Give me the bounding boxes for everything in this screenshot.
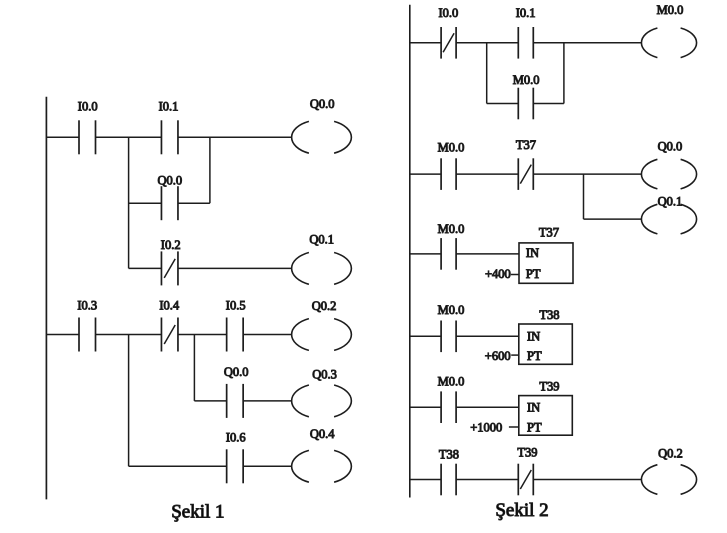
svg-text:T39: T39 [539, 379, 559, 393]
svg-text:Q0.0: Q0.0 [658, 140, 683, 154]
svg-text:I0.0: I0.0 [439, 6, 459, 20]
svg-text:M0.0: M0.0 [513, 73, 540, 87]
svg-text:M0.0: M0.0 [438, 222, 465, 236]
svg-text:I0.1: I0.1 [159, 100, 179, 114]
svg-text:I0.1: I0.1 [516, 6, 536, 20]
svg-text:M0.0: M0.0 [438, 141, 465, 155]
svg-text:Q0.2: Q0.2 [312, 299, 337, 313]
svg-text:T38: T38 [439, 448, 459, 462]
svg-text:+1000: +1000 [470, 420, 502, 434]
svg-text:Q0.0: Q0.0 [224, 365, 249, 379]
svg-text:+600: +600 [485, 349, 511, 363]
svg-text:M0.0: M0.0 [657, 3, 684, 17]
svg-text:T37: T37 [539, 226, 559, 240]
svg-text:Şekil 2: Şekil 2 [495, 500, 548, 521]
svg-text:PT: PT [526, 267, 541, 281]
svg-text:PT: PT [527, 420, 542, 434]
svg-text:PT: PT [527, 349, 542, 363]
svg-text:I0.5: I0.5 [226, 299, 246, 313]
svg-text:I0.3: I0.3 [77, 299, 97, 313]
svg-text:IN: IN [527, 401, 540, 415]
svg-text:Q0.1: Q0.1 [309, 233, 334, 247]
svg-text:Q0.1: Q0.1 [658, 195, 683, 209]
svg-text:I0.6: I0.6 [226, 431, 246, 445]
svg-text:+400: +400 [485, 267, 511, 281]
svg-text:T39: T39 [517, 446, 537, 460]
svg-text:I0.2: I0.2 [161, 238, 181, 252]
svg-text:Q0.3: Q0.3 [312, 368, 337, 382]
svg-text:T38: T38 [539, 308, 559, 322]
svg-text:Q0.4: Q0.4 [310, 427, 335, 441]
svg-text:IN: IN [527, 330, 540, 344]
svg-text:M0.0: M0.0 [438, 303, 465, 317]
svg-text:I0.4: I0.4 [159, 299, 180, 313]
svg-text:Şekil 1: Şekil 1 [171, 502, 224, 523]
svg-text:Q0.0: Q0.0 [310, 97, 335, 111]
svg-text:T37: T37 [516, 138, 536, 152]
svg-text:M0.0: M0.0 [438, 375, 465, 389]
svg-text:I0.0: I0.0 [78, 100, 98, 114]
svg-text:Q0.2: Q0.2 [658, 446, 683, 460]
svg-text:IN: IN [526, 246, 539, 260]
svg-text:Q0.0: Q0.0 [157, 174, 182, 188]
